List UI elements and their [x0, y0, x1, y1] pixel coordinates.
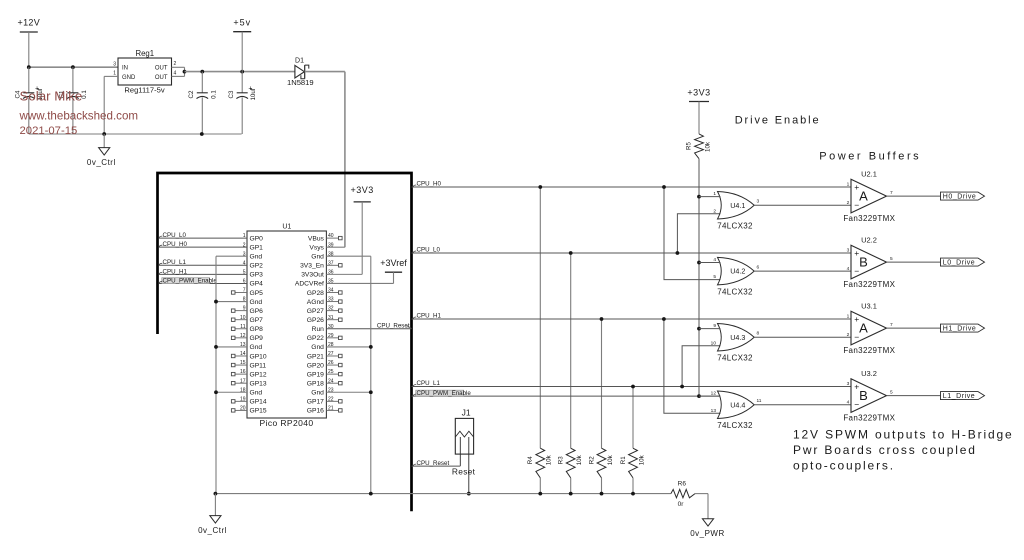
- net label CPU_H0: [413, 185, 416, 187]
- svg-text:1N5819: 1N5819: [287, 78, 314, 87]
- svg-text:GP28: GP28: [307, 290, 324, 297]
- wire Drive Enable net: [698, 159, 700, 396]
- svg-text:CPU_Reset: CPU_Reset: [377, 322, 410, 329]
- svg-text:10uf: 10uf: [250, 88, 257, 100]
- svg-text:+3V3: +3V3: [687, 87, 710, 97]
- svg-text:R5: R5: [686, 141, 693, 149]
- junction CPU_H1 branch: [662, 317, 666, 321]
- svg-text:GP12: GP12: [250, 371, 267, 378]
- svg-text:Reset: Reset: [452, 466, 476, 476]
- svg-text:0v_Ctrl: 0v_Ctrl: [87, 158, 116, 167]
- wire U2.1 output: [887, 195, 941, 197]
- svg-text:CPU_H1: CPU_H1: [417, 313, 442, 320]
- junction pin28 Gnd: [369, 345, 373, 349]
- junction U4.2 pin4: [697, 261, 701, 265]
- svg-text:13: 13: [711, 408, 717, 414]
- CPU control bus (thick outline): [158, 173, 412, 511]
- capacitor C4 10uf: [28, 67, 30, 93]
- buffer U3.1 Fan3229TMX: [851, 311, 887, 345]
- svg-text:GP7: GP7: [250, 317, 264, 324]
- wire 0v rail bottom of caps: [29, 133, 242, 135]
- svg-text:U1: U1: [282, 223, 291, 230]
- svg-text:H1_Drive: H1_Drive: [943, 326, 977, 333]
- junction node C2 on 0v rail: [200, 132, 204, 136]
- wire 0v rail (bottom): [215, 493, 671, 495]
- svg-text:10k: 10k: [546, 454, 553, 465]
- resistor R6 0r: [671, 489, 695, 497]
- svg-text:OUT: OUT: [155, 75, 168, 81]
- junction CPU_H0 branch: [662, 185, 666, 189]
- svg-text:4: 4: [847, 399, 850, 405]
- wire +5v rail: [185, 71, 295, 73]
- svg-text:CPU_H1: CPU_H1: [163, 268, 188, 275]
- net label CPU_Reset (Run pin): [407, 327, 412, 329]
- svg-text:0.1: 0.1: [211, 90, 218, 99]
- svg-text:Gnd: Gnd: [250, 299, 263, 306]
- svg-text:J1: J1: [462, 407, 471, 417]
- junction R4 0v: [538, 492, 542, 496]
- svg-text:10k: 10k: [638, 454, 645, 465]
- wire Reg1 OUT pins joined: [172, 66, 185, 68]
- svg-text:11: 11: [757, 398, 762, 404]
- junction node C2 on +5v rail: [200, 70, 204, 74]
- svg-text:3: 3: [847, 381, 850, 387]
- or-gate U4.4 74LCX32: [718, 391, 755, 419]
- svg-text:A: A: [859, 189, 868, 204]
- svg-text:3V3Out: 3V3Out: [301, 272, 324, 279]
- wire CPU_H1 to U4.4 pin13: [664, 319, 721, 413]
- svg-text:U4.4: U4.4: [730, 400, 745, 409]
- svg-text:2021-07-15: 2021-07-15: [20, 125, 78, 137]
- svg-text:U4.2: U4.2: [730, 267, 745, 276]
- svg-text:74LCX32: 74LCX32: [717, 353, 753, 362]
- svg-text:Solar Mike: Solar Mike: [20, 89, 83, 104]
- svg-text:12: 12: [711, 391, 717, 397]
- junction R2 0v: [600, 492, 604, 496]
- svg-text:Pico RP2040: Pico RP2040: [259, 418, 313, 428]
- wire +12V to regulator IN: [29, 66, 118, 68]
- svg-text:3V3_En: 3V3_En: [300, 263, 324, 270]
- svg-text:Gnd: Gnd: [311, 390, 324, 397]
- svg-text:GP6: GP6: [250, 308, 264, 315]
- svg-text:GP0: GP0: [250, 235, 264, 242]
- svg-text:AGnd: AGnd: [307, 299, 324, 306]
- svg-text:L1_Drive: L1_Drive: [943, 393, 975, 400]
- junction R3 0v: [569, 492, 573, 496]
- wire CPU_H0 to U4.2 pin5: [664, 187, 721, 280]
- svg-text:U3.1: U3.1: [861, 302, 877, 311]
- svg-text:8: 8: [757, 331, 760, 337]
- svg-text:CPU_H0: CPU_H0: [417, 181, 442, 188]
- svg-text:4: 4: [847, 266, 850, 272]
- svg-text:9: 9: [713, 323, 716, 329]
- ground 0v_PWR: [702, 519, 713, 526]
- junction J1 pin2 on 0v rail: [467, 492, 471, 496]
- net label H1_Drive: [941, 324, 985, 332]
- svg-text:C3: C3: [228, 90, 235, 98]
- svg-text:H0_Drive: H0_Drive: [943, 194, 977, 201]
- svg-text:Power Buffers: Power Buffers: [819, 151, 921, 163]
- svg-text:opto-couplers.: opto-couplers.: [793, 459, 895, 473]
- net label CPU_L0 (pin 1): [159, 236, 163, 238]
- junction right Gnd vertical: [369, 492, 373, 496]
- wire R6 to 0v_PWR: [695, 493, 708, 495]
- svg-text:0v_Ctrl: 0v_Ctrl: [198, 526, 227, 535]
- svg-text:12V SPWM outputs to H-Bridge: 12V SPWM outputs to H-Bridge: [793, 428, 1014, 442]
- svg-text:GND: GND: [122, 75, 136, 81]
- svg-text:0v_PWR: 0v_PWR: [690, 529, 725, 538]
- svg-text:Reg1117-5v: Reg1117-5v: [124, 85, 164, 94]
- svg-text:R6: R6: [678, 481, 687, 488]
- svg-text:Gnd: Gnd: [311, 344, 324, 351]
- net label L1_Drive: [941, 392, 985, 400]
- wire U3.2 output: [887, 395, 941, 397]
- svg-text:2: 2: [847, 200, 850, 206]
- svg-text:U2.1: U2.1: [861, 170, 877, 179]
- buffer U2.2 Fan3229TMX: [851, 245, 887, 279]
- svg-text:5: 5: [890, 256, 893, 262]
- svg-text:U3.2: U3.2: [861, 369, 877, 378]
- svg-text:7: 7: [890, 190, 893, 196]
- wire D1 cathode to Vsys: [305, 71, 345, 73]
- resistor R3 10k: [570, 253, 572, 448]
- svg-text:2: 2: [713, 208, 716, 214]
- svg-text:CPU_PWM_Enable: CPU_PWM_Enable: [163, 277, 218, 284]
- svg-text:GP18: GP18: [307, 380, 324, 387]
- junction node C3 / +5v symbol: [240, 70, 244, 74]
- svg-text:VBus: VBus: [308, 235, 325, 242]
- svg-text:GP5: GP5: [250, 290, 264, 297]
- svg-text:10k: 10k: [576, 454, 583, 465]
- wire U1 right Gnd pins to 0v: [370, 256, 372, 493]
- svg-text:CPU_PWM_Enable: CPU_PWM_Enable: [417, 390, 472, 397]
- svg-text:10k: 10k: [607, 454, 614, 465]
- svg-text:+3Vref: +3Vref: [380, 258, 407, 268]
- net label L0_Drive: [941, 258, 985, 266]
- svg-text:GP14: GP14: [250, 399, 267, 406]
- resistor R5 10k: [695, 134, 704, 159]
- svg-text:Gnd: Gnd: [250, 390, 263, 397]
- junction pin23 Gnd: [369, 390, 373, 394]
- svg-text:10k: 10k: [704, 141, 711, 152]
- svg-text:Vsys: Vsys: [309, 244, 324, 251]
- net label CPU_H1: [413, 317, 416, 319]
- wire CPU_L1 to U4.3 pin10: [682, 346, 720, 387]
- svg-text:R4: R4: [527, 456, 534, 464]
- svg-text:R2: R2: [588, 456, 595, 464]
- svg-text:3: 3: [757, 199, 760, 205]
- svg-text:GP4: GP4: [250, 281, 264, 288]
- junction node +12V / C4: [27, 65, 31, 69]
- svg-text:GP15: GP15: [250, 408, 267, 415]
- junction pin8 Gnd: [214, 300, 218, 304]
- wire CPU_H1: [412, 318, 852, 320]
- svg-text:7: 7: [890, 322, 893, 328]
- svg-text:74LCX32: 74LCX32: [717, 287, 753, 296]
- svg-text:2: 2: [174, 61, 177, 67]
- net label CPU_L1: [413, 385, 416, 387]
- junction CPU_L0/R3: [569, 251, 573, 255]
- svg-text:GP27: GP27: [307, 308, 324, 315]
- net label CPU_L0: [413, 251, 416, 253]
- junction pin13 Gnd: [214, 345, 218, 349]
- svg-text:1: 1: [113, 71, 116, 77]
- junction CPU_L1/R1: [631, 385, 635, 389]
- svg-text:GP8: GP8: [250, 326, 264, 333]
- or-gate U4.3 74LCX32: [718, 323, 755, 351]
- svg-text:CPU_L1: CPU_L1: [163, 259, 187, 266]
- svg-text:Run: Run: [312, 326, 325, 333]
- junction CPU_H1/R2: [600, 317, 604, 321]
- net label H0_Drive: [941, 192, 985, 200]
- svg-text:10: 10: [711, 340, 717, 346]
- wire U1 left Gnd pins to 0v: [215, 256, 217, 493]
- svg-text:+5v: +5v: [233, 18, 251, 28]
- svg-text:ADCVRef: ADCVRef: [295, 281, 324, 288]
- svg-text:A: A: [859, 321, 868, 336]
- net label CPU_PWM_Enable (highlighted): [416, 390, 464, 396]
- svg-text:+12V: +12V: [18, 18, 40, 28]
- svg-text:GP9: GP9: [250, 335, 264, 342]
- wire CPU_L1: [412, 386, 852, 388]
- buffer U3.2 Fan3229TMX: [851, 379, 887, 413]
- resistor R4 10k: [539, 187, 541, 448]
- svg-text:Pwr Boards cross coupled: Pwr Boards cross coupled: [793, 443, 977, 457]
- ground 0v_Ctrl (regulator): [103, 134, 105, 148]
- svg-text:CPU_L0: CPU_L0: [417, 247, 441, 254]
- svg-text:GP16: GP16: [307, 408, 324, 415]
- net label CPU_H0 (pin 2): [159, 245, 163, 247]
- svg-text:Fan3229TMX: Fan3229TMX: [843, 346, 895, 355]
- connector J1 Reset: [455, 418, 473, 454]
- svg-text:+3V3: +3V3: [351, 185, 374, 195]
- svg-text:3: 3: [847, 248, 850, 254]
- svg-text:5: 5: [890, 389, 893, 395]
- svg-text:L0_Drive: L0_Drive: [943, 260, 975, 267]
- svg-text:OUT: OUT: [155, 66, 168, 72]
- svg-text:D1: D1: [295, 58, 304, 65]
- svg-text:B: B: [859, 388, 868, 403]
- svg-text:Fan3229TMX: Fan3229TMX: [843, 214, 895, 223]
- svg-text:CPU_H0: CPU_H0: [163, 241, 188, 248]
- svg-text:1: 1: [847, 314, 850, 320]
- wire U3.1 output: [887, 327, 941, 329]
- wire CPU_H0: [412, 186, 852, 188]
- svg-text:U4.1: U4.1: [730, 201, 745, 210]
- svg-text:C2: C2: [188, 90, 195, 98]
- svg-text:GP21: GP21: [307, 353, 324, 360]
- svg-text:IN: IN: [122, 66, 128, 72]
- net label CPU_PWM_Enable (pin 6, highlighted): [162, 278, 210, 284]
- svg-text:U2.2: U2.2: [861, 236, 877, 245]
- svg-text:U4.3: U4.3: [730, 333, 745, 342]
- junction pin18 Gnd: [214, 390, 218, 394]
- wire J1 pin1 to bus: [412, 465, 461, 467]
- svg-text:Drive Enable: Drive Enable: [735, 115, 821, 127]
- microcontroller U1 Pico RP2040: [247, 231, 326, 418]
- svg-text:Fan3229TMX: Fan3229TMX: [843, 280, 895, 289]
- wire 3V3Out to +3V3: [361, 202, 363, 274]
- junction node +12V / C1: [71, 65, 75, 69]
- svg-text:Gnd: Gnd: [250, 254, 263, 261]
- svg-text:R3: R3: [558, 456, 565, 464]
- resistor R2 10k: [601, 319, 603, 448]
- wire ADCVRef to +3Vref: [393, 272, 395, 283]
- capacitor C3 10uf: [241, 72, 243, 93]
- svg-text:Fan3229TMX: Fan3229TMX: [843, 414, 895, 423]
- junction CPU_L0 branch: [676, 251, 680, 255]
- junction 0v_Ctrl vertical: [214, 492, 218, 496]
- svg-text:0r: 0r: [678, 501, 685, 508]
- svg-text:GP2: GP2: [250, 263, 264, 270]
- svg-text:Reg1: Reg1: [135, 49, 154, 58]
- junction CPU_H0/R4: [538, 185, 542, 189]
- svg-text:GP22: GP22: [307, 335, 324, 342]
- junction U4.3 pin9: [697, 327, 701, 331]
- svg-text:5: 5: [713, 274, 716, 280]
- svg-text:74LCX32: 74LCX32: [717, 421, 753, 430]
- svg-text:GP20: GP20: [307, 362, 324, 369]
- junction CPU_L1 branch: [680, 385, 684, 389]
- svg-text:B: B: [859, 255, 868, 270]
- resistor R1 10k: [632, 387, 634, 449]
- svg-text:3: 3: [113, 62, 116, 68]
- wire CPU_L0 to U4.1 pin2: [677, 214, 720, 253]
- svg-text:4: 4: [174, 71, 177, 77]
- svg-text:GP11: GP11: [250, 362, 267, 369]
- svg-text:www.thebackshed.com: www.thebackshed.com: [19, 109, 139, 122]
- svg-text:CPU_L0: CPU_L0: [163, 232, 187, 239]
- diode D1 1N5819: [295, 65, 305, 78]
- svg-text:GP1: GP1: [250, 244, 264, 251]
- junction R1 0v: [631, 492, 635, 496]
- svg-text:4: 4: [713, 257, 716, 263]
- or-gate U4.1 74LCX32: [718, 191, 755, 219]
- svg-text:GP26: GP26: [307, 317, 324, 324]
- svg-text:GP13: GP13: [250, 380, 267, 387]
- buffer U2.1 Fan3229TMX: [851, 179, 887, 213]
- svg-text:R1: R1: [620, 456, 627, 464]
- svg-text:Gnd: Gnd: [311, 254, 324, 261]
- svg-text:GP19: GP19: [307, 371, 324, 378]
- svg-text:Gnd: Gnd: [250, 344, 263, 351]
- ground 0v_Ctrl (bottom): [214, 494, 216, 516]
- wire CPU_L0: [412, 252, 852, 254]
- svg-text:GP17: GP17: [307, 399, 324, 406]
- junction Drive Enable / CPU_PWM_Enable: [697, 394, 701, 398]
- or-gate U4.2 74LCX32: [718, 257, 755, 285]
- svg-text:GP3: GP3: [250, 272, 264, 279]
- net label CPU_Reset (J1): [413, 464, 416, 466]
- wire U2.2 output: [887, 261, 941, 263]
- capacitor C1 0.1: [72, 67, 74, 93]
- junction U4.1 pin1: [697, 195, 701, 199]
- svg-text:1: 1: [713, 191, 716, 197]
- svg-text:1: 1: [847, 182, 850, 188]
- svg-text:74LCX32: 74LCX32: [717, 221, 753, 230]
- wire CPU_PWM_Enable: [412, 395, 721, 397]
- capacitor C2 0.1: [201, 72, 203, 93]
- svg-text:CPU_Reset: CPU_Reset: [417, 460, 450, 467]
- junction node reg GND on 0v rail: [102, 132, 106, 136]
- net label CPU_L1 (pin 4): [159, 263, 163, 265]
- svg-text:GP10: GP10: [250, 353, 267, 360]
- net label CPU_H1 (pin 5): [159, 272, 163, 274]
- svg-text:2: 2: [847, 332, 850, 338]
- junction node +5v rail at OUT: [183, 70, 187, 74]
- regulator Reg1 Reg1117-5v: [118, 58, 172, 85]
- svg-text:CPU_L1: CPU_L1: [417, 380, 441, 387]
- svg-text:6: 6: [757, 265, 760, 271]
- wire Reg1 GND down to 0v rail: [104, 75, 118, 77]
